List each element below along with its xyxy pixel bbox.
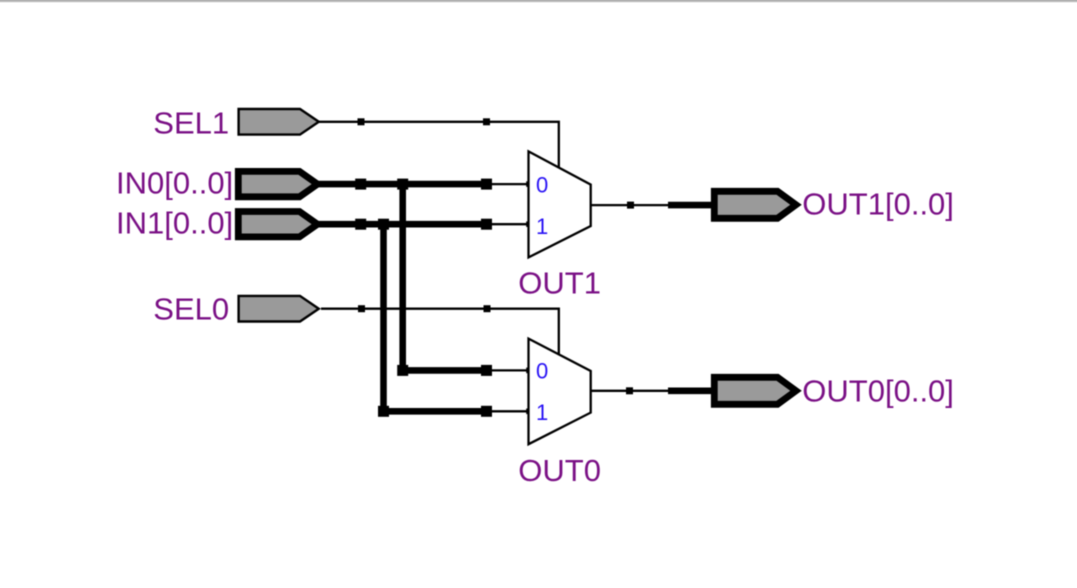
junction IN1 bus a [355,219,366,230]
junction on SEL1 wire near mux [483,118,490,125]
svg-text:1: 1 [536,400,548,425]
junction IN0 bus at trunk A [397,179,408,190]
wire MUX1 output thin [591,204,670,206]
input pin SEL1 [239,109,319,135]
svg-text:0: 0 [536,359,548,384]
junction trunk A corner [397,365,408,376]
junction on SEL1 wire [358,118,365,125]
svg-text:OUT1: OUT1 [518,265,601,300]
svg-text:SEL1: SEL1 [153,105,229,140]
junction trunk B end [481,406,492,417]
wire MUX1 output bus [668,202,716,209]
junction on MUX0 output wire [626,387,633,394]
svg-text:OUT0: OUT0 [518,453,601,488]
junction on MUX1 output wire [627,202,634,209]
node MUX0 pin1 [526,409,532,415]
junction IN1 bus at trunk B [378,219,389,230]
wire IN1 bus horizontal [316,221,487,228]
svg-text:OUT0[0..0]: OUT0[0..0] [802,373,954,408]
multiplexer U1 (OUT1) body [529,151,591,257]
output pin OUT1 (bus) [714,191,796,218]
junction IN0 bus a [355,179,366,190]
junction IN1 bus end [481,219,492,230]
junction trunk A end [481,365,492,376]
input pin SEL0 [239,296,319,322]
junction IN0 bus end [481,179,492,190]
wire trunk A: IN0 down to MUX0 input0 [403,184,487,370]
node MUX1 pin1 [526,221,532,227]
svg-text:0: 0 [536,173,548,198]
node MUX1 pin0 [526,181,532,187]
multiplexer U0 (OUT0) body [529,339,591,445]
svg-text:IN0[0..0]: IN0[0..0] [116,165,233,200]
wire MUX0 output thin [591,390,669,392]
input pin IN0 (bus) [238,171,317,196]
wire SEL1 horizontal+down to MUX1 select [319,122,559,168]
wire IN0 bus horizontal [316,181,487,188]
wire SEL0 horizontal+down to MUX0 select [321,309,559,355]
svg-text:1: 1 [536,214,548,239]
node MUX0 pin0 [526,368,532,374]
input pin IN1 (bus) [238,212,317,237]
wire stub to MUX0 pin 0 [487,369,530,371]
svg-text:OUT1[0..0]: OUT1[0..0] [802,186,954,221]
junction on SEL0 wire near mux [484,305,491,312]
junction trunk B corner [378,406,389,417]
svg-text:IN1[0..0]: IN1[0..0] [116,205,233,240]
wire stub to MUX0 pin 1 [487,410,530,412]
output pin OUT0 (bus) [714,377,796,404]
toolbar bottom edge [0,0,1077,3]
wire stub to MUX1 pin 0 [487,183,530,185]
wire stub to MUX1 pin 1 [487,223,530,225]
junction on SEL0 wire [358,305,365,312]
wire trunk B: IN1 down to MUX0 input1 [384,224,487,411]
wire MUX0 output bus [668,387,716,394]
svg-text:SEL0: SEL0 [153,292,229,327]
